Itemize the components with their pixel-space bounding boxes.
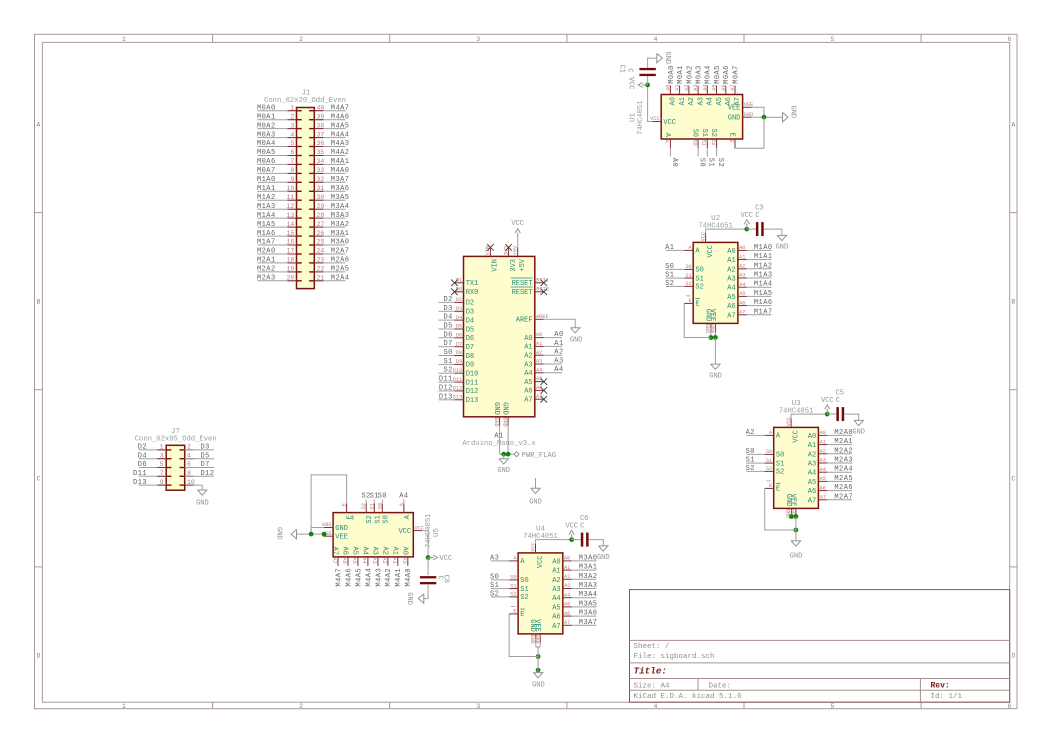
svg-text:S0: S0 <box>695 267 703 275</box>
svg-text:9: 9 <box>160 479 164 486</box>
svg-text:D: D <box>36 653 40 660</box>
svg-text:S2: S2 <box>510 592 516 598</box>
svg-text:24: 24 <box>317 248 325 255</box>
svg-text:A3: A3 <box>727 276 735 284</box>
svg-text:3V3: 3V3 <box>510 259 518 272</box>
svg-text:E: E <box>769 483 772 489</box>
svg-text:E: E <box>347 515 355 519</box>
svg-text:A4: A4 <box>727 285 735 293</box>
svg-text:2: 2 <box>299 36 303 43</box>
svg-text:E: E <box>695 301 699 309</box>
svg-text:E: E <box>513 609 516 615</box>
svg-text:A4: A4 <box>536 367 542 373</box>
svg-text:13: 13 <box>286 212 294 219</box>
svg-text:GND: GND <box>570 336 583 344</box>
svg-text:A1: A1 <box>739 254 745 260</box>
svg-text:M3A0: M3A0 <box>579 554 598 562</box>
svg-text:A3: A3 <box>697 97 705 105</box>
svg-text:M2A0: M2A0 <box>834 429 853 437</box>
svg-text:A4: A4 <box>399 493 408 501</box>
svg-text:A3: A3 <box>524 361 532 369</box>
svg-text:GND: GND <box>790 553 803 561</box>
svg-text:M1A4: M1A4 <box>257 212 276 220</box>
svg-text:Size: A4: Size: A4 <box>634 683 671 691</box>
svg-text:18: 18 <box>286 257 294 264</box>
svg-text:A6: A6 <box>739 300 745 306</box>
svg-text:S0: S0 <box>691 129 699 137</box>
svg-text:GND: GND <box>492 402 500 415</box>
svg-text:S1: S1 <box>701 140 707 146</box>
svg-text:S2: S2 <box>776 469 784 477</box>
svg-text:A6: A6 <box>524 388 532 396</box>
svg-text:A5: A5 <box>739 291 745 297</box>
svg-text:A2: A2 <box>552 577 560 585</box>
svg-text:M4A6: M4A6 <box>345 568 353 587</box>
svg-text:A2: A2 <box>684 85 690 91</box>
svg-text:D5: D5 <box>443 323 452 331</box>
svg-text:M1A6: M1A6 <box>257 230 276 238</box>
svg-text:A1: A1 <box>808 442 816 450</box>
svg-text:VCC: VCC <box>821 397 834 405</box>
svg-text:M1A1: M1A1 <box>257 185 276 193</box>
svg-text:A3: A3 <box>808 461 816 469</box>
svg-text:GND: GND <box>497 467 510 475</box>
svg-text:A3: A3 <box>371 557 377 563</box>
svg-text:D9: D9 <box>466 362 474 370</box>
svg-text:40: 40 <box>317 104 325 111</box>
svg-text:A3: A3 <box>370 546 378 554</box>
svg-text:M4A1: M4A1 <box>331 158 350 166</box>
svg-text:D5: D5 <box>456 324 462 330</box>
svg-text:VCC: VCC <box>792 430 800 443</box>
svg-text:M0A5: M0A5 <box>714 65 722 84</box>
svg-text:M0A4: M0A4 <box>705 65 713 84</box>
svg-text:A7: A7 <box>331 546 339 554</box>
svg-text:A6: A6 <box>341 557 347 563</box>
svg-text:6: 6 <box>290 149 294 156</box>
svg-text:A0: A0 <box>670 97 678 105</box>
svg-text:+5V: +5V <box>519 258 527 271</box>
svg-text:M4A3: M4A3 <box>331 140 350 148</box>
svg-text:M3A5: M3A5 <box>579 600 598 608</box>
svg-text:E: E <box>728 133 736 137</box>
svg-text:D3: D3 <box>466 309 474 317</box>
svg-text:S1: S1 <box>369 503 375 509</box>
svg-text:A3: A3 <box>536 359 542 365</box>
svg-text:S1: S1 <box>665 272 674 280</box>
svg-text:D2: D2 <box>138 444 147 452</box>
svg-text:GND: GND <box>493 417 499 427</box>
svg-text:10: 10 <box>286 185 294 192</box>
svg-text:11: 11 <box>286 194 294 201</box>
svg-text:A0: A0 <box>400 546 408 554</box>
svg-text:33: 33 <box>317 167 325 174</box>
svg-text:C1: C1 <box>618 65 626 73</box>
svg-text:M3A4: M3A4 <box>331 203 350 211</box>
svg-text:A6: A6 <box>341 546 349 554</box>
svg-text:A5: A5 <box>524 379 532 387</box>
svg-text:VCC: VCC <box>626 77 634 90</box>
svg-text:22: 22 <box>317 266 325 273</box>
svg-text:6: 6 <box>1008 36 1012 43</box>
svg-text:Rev:: Rev: <box>931 682 950 691</box>
svg-text:A2: A2 <box>381 557 387 563</box>
svg-text:Sheet: /: Sheet: / <box>634 643 671 651</box>
svg-text:VEE: VEE <box>335 534 348 542</box>
svg-text:S1: S1 <box>766 458 772 464</box>
svg-text:A5: A5 <box>808 479 816 487</box>
svg-text:M2A1: M2A1 <box>834 438 853 446</box>
svg-text:D6: D6 <box>466 335 474 343</box>
svg-text:23: 23 <box>317 257 325 264</box>
svg-text:M0A0: M0A0 <box>257 104 276 112</box>
svg-text:M0A4: M0A4 <box>257 140 276 148</box>
svg-text:Conn_02x05_Odd_Even: Conn_02x05_Odd_Even <box>135 436 217 444</box>
svg-text:M4A4: M4A4 <box>331 131 350 139</box>
svg-text:D13: D13 <box>133 479 147 487</box>
svg-text:E: E <box>728 140 734 143</box>
svg-text:GND: GND <box>196 500 209 508</box>
svg-text:A5: A5 <box>716 97 724 105</box>
svg-text:M1A1: M1A1 <box>754 253 773 261</box>
svg-text:2: 2 <box>299 703 303 710</box>
svg-text:A7: A7 <box>727 312 735 320</box>
svg-text:3: 3 <box>476 36 480 43</box>
svg-text:S1: S1 <box>443 358 452 366</box>
svg-text:AREF: AREF <box>516 317 533 325</box>
svg-text:D9: D9 <box>456 359 462 365</box>
svg-text:1: 1 <box>160 444 164 451</box>
svg-text:A4: A4 <box>808 470 816 478</box>
svg-text:36: 36 <box>317 140 325 147</box>
svg-text:S0: S0 <box>766 449 772 455</box>
svg-text:M3A6: M3A6 <box>331 185 350 193</box>
svg-text:M3A0: M3A0 <box>331 239 350 247</box>
svg-text:S1: S1 <box>520 586 528 594</box>
svg-text:M2A3: M2A3 <box>257 275 276 283</box>
svg-text:A2: A2 <box>727 266 735 274</box>
svg-text:4: 4 <box>290 131 294 138</box>
svg-text:M1A5: M1A5 <box>257 221 276 229</box>
svg-text:M1A5: M1A5 <box>754 290 773 298</box>
svg-text:D11: D11 <box>466 379 479 387</box>
svg-text:M3A7: M3A7 <box>579 619 598 627</box>
svg-text:M4A2: M4A2 <box>331 149 350 157</box>
svg-text:A7: A7 <box>730 85 736 91</box>
svg-text:M2A6: M2A6 <box>834 484 853 492</box>
svg-text:GND: GND <box>852 429 865 437</box>
svg-text:A1: A1 <box>564 565 570 571</box>
svg-text:C: C <box>625 68 633 72</box>
svg-text:74HC4051: 74HC4051 <box>637 100 645 135</box>
svg-text:A0: A0 <box>564 556 570 562</box>
svg-text:D13: D13 <box>466 397 479 405</box>
svg-text:S0: S0 <box>490 573 499 581</box>
svg-text:C8: C8 <box>441 575 449 583</box>
svg-text:S0: S0 <box>698 158 706 167</box>
svg-text:M4A2: M4A2 <box>385 568 393 587</box>
svg-text:VCC: VCC <box>537 556 545 569</box>
svg-text:20: 20 <box>286 275 294 282</box>
svg-text:C: C <box>755 212 759 220</box>
svg-text:VEE: VEE <box>708 309 716 322</box>
svg-text:17: 17 <box>286 248 294 255</box>
svg-text:VEE: VEE <box>709 324 715 334</box>
svg-text:A3: A3 <box>820 458 826 464</box>
svg-text:A4: A4 <box>524 370 532 378</box>
svg-text:4: 4 <box>653 36 657 43</box>
svg-text:A5: A5 <box>564 602 570 608</box>
svg-text:S0: S0 <box>510 575 516 581</box>
svg-text:D3: D3 <box>456 306 462 312</box>
svg-text:S2: S2 <box>746 465 755 473</box>
svg-text:M4A4: M4A4 <box>365 568 373 587</box>
svg-text:M2A0: M2A0 <box>257 248 276 256</box>
svg-text:A4: A4 <box>552 595 560 603</box>
svg-text:35: 35 <box>317 149 325 156</box>
svg-text:A5: A5 <box>351 557 357 563</box>
svg-text:A7: A7 <box>739 310 745 316</box>
svg-text:D8: D8 <box>456 350 462 356</box>
svg-text:A0: A0 <box>554 331 563 339</box>
svg-text:A1: A1 <box>679 97 687 105</box>
svg-text:M2A7: M2A7 <box>331 248 350 256</box>
svg-text:S0: S0 <box>665 263 674 271</box>
svg-text:E: E <box>776 486 780 494</box>
svg-text:Id: 1/1: Id: 1/1 <box>931 693 963 701</box>
svg-text:S2: S2 <box>520 594 528 602</box>
svg-text:A4: A4 <box>702 85 708 91</box>
svg-text:D12: D12 <box>201 470 215 478</box>
svg-text:D11: D11 <box>439 376 453 384</box>
svg-text:M1A0: M1A0 <box>754 244 773 252</box>
svg-text:S0: S0 <box>776 452 784 460</box>
svg-text:S2: S2 <box>361 503 367 509</box>
svg-text:VCC: VCC <box>511 220 524 228</box>
svg-text:VEE: VEE <box>534 634 540 644</box>
svg-text:M3A2: M3A2 <box>579 573 598 581</box>
svg-text:A3: A3 <box>693 85 699 91</box>
svg-text:M4A5: M4A5 <box>331 122 350 130</box>
svg-text:M3A3: M3A3 <box>579 582 598 590</box>
svg-text:D2: D2 <box>466 300 474 308</box>
svg-text:9: 9 <box>290 176 294 183</box>
svg-text:M2A2: M2A2 <box>834 447 853 455</box>
svg-text:A1: A1 <box>552 568 560 576</box>
svg-text:S2: S2 <box>665 280 674 288</box>
svg-text:M0A6: M0A6 <box>723 65 731 84</box>
svg-text:A4: A4 <box>739 282 745 288</box>
svg-text:D10: D10 <box>466 371 479 379</box>
svg-text:A2: A2 <box>820 449 826 455</box>
svg-text:S1: S1 <box>695 275 703 283</box>
svg-text:S2: S2 <box>766 466 772 472</box>
svg-text:M0A0: M0A0 <box>668 65 676 84</box>
svg-text:S2: S2 <box>710 140 716 146</box>
svg-text:D7: D7 <box>456 341 462 347</box>
svg-text:38: 38 <box>317 122 325 129</box>
svg-text:A4: A4 <box>564 592 570 598</box>
svg-text:M1A2: M1A2 <box>257 194 276 202</box>
svg-text:2: 2 <box>290 113 294 120</box>
svg-text:GND: GND <box>709 373 722 381</box>
svg-text:S1: S1 <box>510 583 516 589</box>
svg-text:VEE: VEE <box>533 619 541 632</box>
svg-text:M0A7: M0A7 <box>257 167 276 175</box>
svg-text:A5: A5 <box>712 85 718 91</box>
svg-text:GND: GND <box>529 499 542 507</box>
svg-text:32: 32 <box>317 176 325 183</box>
svg-text:S2: S2 <box>695 284 703 292</box>
svg-text:S1: S1 <box>700 129 708 137</box>
svg-text:A6: A6 <box>721 85 727 91</box>
svg-text:34: 34 <box>317 158 325 165</box>
svg-text:D13: D13 <box>439 393 453 401</box>
svg-text:A5: A5 <box>820 476 826 482</box>
svg-text:S2: S2 <box>490 590 499 598</box>
svg-text:A3: A3 <box>564 583 570 589</box>
svg-text:S1: S1 <box>685 273 691 279</box>
svg-text:M2A5: M2A5 <box>834 475 853 483</box>
svg-text:A3: A3 <box>739 273 745 279</box>
svg-text:D12: D12 <box>466 388 479 396</box>
svg-text:A: A <box>1011 121 1015 128</box>
svg-text:A3: A3 <box>552 586 560 594</box>
svg-text:3: 3 <box>476 703 480 710</box>
svg-text:M3A1: M3A1 <box>331 230 350 238</box>
svg-text:37: 37 <box>317 131 325 138</box>
svg-text:16: 16 <box>286 239 294 246</box>
svg-text:D6: D6 <box>443 331 452 339</box>
svg-text:D6: D6 <box>138 461 147 469</box>
svg-text:A0: A0 <box>670 158 678 167</box>
svg-text:A0: A0 <box>808 433 816 441</box>
svg-text:M3A1: M3A1 <box>579 564 598 572</box>
svg-text:A0: A0 <box>524 335 532 343</box>
svg-text:1: 1 <box>122 703 126 710</box>
svg-text:D6: D6 <box>456 333 462 339</box>
svg-text:A5: A5 <box>727 294 735 302</box>
svg-text:M0A2: M0A2 <box>257 122 276 130</box>
svg-text:3: 3 <box>160 452 164 459</box>
svg-text:M1A3: M1A3 <box>754 272 773 280</box>
svg-text:A3: A3 <box>490 554 499 562</box>
svg-text:A3: A3 <box>554 357 563 365</box>
svg-text:A4: A4 <box>554 366 563 374</box>
svg-text:12: 12 <box>286 203 294 210</box>
svg-text:Title:: Title: <box>634 666 667 677</box>
svg-text:B: B <box>36 298 40 305</box>
svg-text:A0: A0 <box>536 332 542 338</box>
svg-text:A7: A7 <box>820 495 826 501</box>
svg-text:D7: D7 <box>443 340 452 348</box>
svg-text:VCC: VCC <box>740 212 753 220</box>
svg-text:RST2: RST2 <box>536 287 549 293</box>
svg-text:1: 1 <box>122 36 126 43</box>
svg-text:3: 3 <box>290 122 294 129</box>
svg-text:GND: GND <box>789 106 797 119</box>
svg-text:RX0: RX0 <box>466 289 479 297</box>
svg-text:C: C <box>580 523 584 531</box>
svg-text:D4: D4 <box>443 314 452 322</box>
svg-text:M2A4: M2A4 <box>331 275 350 283</box>
svg-text:VCC: VCC <box>440 555 453 563</box>
svg-text:M4A5: M4A5 <box>355 568 363 587</box>
svg-text:S2: S2 <box>709 129 717 137</box>
svg-text:M0A2: M0A2 <box>686 65 694 84</box>
svg-text:M4A7: M4A7 <box>335 568 343 587</box>
svg-text:D4: D4 <box>466 317 474 325</box>
svg-text:A2: A2 <box>808 451 816 459</box>
svg-text:S0: S0 <box>520 577 528 585</box>
svg-text:M4A0: M4A0 <box>405 568 413 587</box>
svg-text:VCC: VCC <box>707 245 715 258</box>
svg-text:M2A1: M2A1 <box>257 257 276 265</box>
svg-text:21: 21 <box>317 275 325 282</box>
svg-text:M1A7: M1A7 <box>257 239 276 247</box>
svg-text:A6: A6 <box>820 485 826 491</box>
svg-text:M2A4: M2A4 <box>834 466 853 474</box>
svg-text:30: 30 <box>317 194 325 201</box>
svg-text:GND: GND <box>405 592 413 605</box>
svg-text:A2: A2 <box>554 349 563 357</box>
svg-text:M4A0: M4A0 <box>331 167 350 175</box>
svg-text:D12: D12 <box>439 384 453 392</box>
svg-text:GND: GND <box>776 244 789 252</box>
svg-text:E: E <box>689 298 692 304</box>
svg-text:A7: A7 <box>524 397 532 405</box>
svg-text:D3: D3 <box>201 444 210 452</box>
svg-text:S0: S0 <box>443 349 452 357</box>
svg-text:1: 1 <box>290 104 294 111</box>
svg-text:M2A6: M2A6 <box>331 257 350 265</box>
svg-text:D5: D5 <box>201 452 210 460</box>
svg-text:28: 28 <box>317 212 325 219</box>
svg-text:M4A1: M4A1 <box>395 568 403 587</box>
svg-text:A4: A4 <box>360 546 368 554</box>
svg-text:27: 27 <box>317 221 325 228</box>
svg-text:GND: GND <box>663 52 671 65</box>
svg-text:M1A0: M1A0 <box>257 176 276 184</box>
svg-text:S0: S0 <box>691 140 697 146</box>
svg-text:B: B <box>1011 298 1015 305</box>
svg-text:A5: A5 <box>552 604 560 612</box>
svg-text:M3A4: M3A4 <box>579 591 598 599</box>
svg-text:4: 4 <box>653 703 657 710</box>
svg-text:M4A7: M4A7 <box>331 104 350 112</box>
svg-text:S2: S2 <box>366 515 374 523</box>
svg-text:S0: S0 <box>746 448 755 456</box>
svg-text:M3A7: M3A7 <box>331 176 350 184</box>
svg-text:E: E <box>520 611 524 619</box>
svg-text:A1: A1 <box>494 433 503 441</box>
svg-text:D3: D3 <box>443 305 452 313</box>
svg-text:S2: S2 <box>685 281 691 287</box>
svg-text:D5: D5 <box>466 326 474 334</box>
svg-text:M0A3: M0A3 <box>257 131 276 139</box>
svg-text:A2: A2 <box>536 350 542 356</box>
svg-text:D7: D7 <box>466 344 474 352</box>
svg-text:A7: A7 <box>331 557 337 563</box>
svg-text:VCC: VCC <box>565 523 578 531</box>
svg-text:8: 8 <box>290 167 294 174</box>
svg-text:VCC: VCC <box>398 528 411 536</box>
svg-text:KiCad E.D.A. kicad 5.1.6: KiCad E.D.A. kicad 5.1.6 <box>634 693 743 701</box>
svg-text:D4: D4 <box>456 315 462 321</box>
svg-text:A7: A7 <box>564 620 570 626</box>
svg-text:A1: A1 <box>524 344 532 352</box>
svg-text:S0: S0 <box>382 515 390 523</box>
